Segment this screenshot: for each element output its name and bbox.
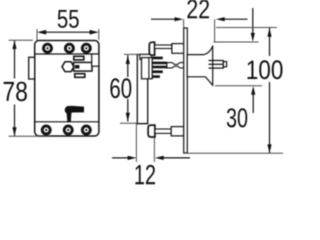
label 55	[58, 10, 79, 28]
dim 78 extension lines	[9, 39, 34, 41]
left mounting tab	[29, 57, 35, 79]
dim 100 line	[269, 28, 271, 56]
bottom bolt shaft	[155, 129, 171, 133]
bottom bolt flange	[148, 125, 155, 137]
label 22	[187, 0, 209, 18]
actuator bottom tab	[75, 74, 85, 78]
top bolt block	[172, 44, 184, 54]
dim 55 extension ticks	[36, 29, 38, 40]
dim 30 bottom arrow	[252, 95, 254, 113]
dim 60 extension lines	[124, 53, 139, 55]
bottom bolt block	[171, 127, 184, 136]
dim 22 extension lines	[183, 19, 185, 28]
dim 60 line	[127, 55, 129, 77]
actuator top tab	[74, 56, 84, 60]
dim 30 top arrow	[252, 8, 254, 33]
terminal T4	[42, 126, 50, 134]
top bolt flange	[149, 42, 154, 55]
screw tip	[223, 62, 226, 67]
terminal T1	[44, 44, 52, 52]
bushing bell	[187, 45, 213, 85]
terminal T5	[64, 126, 72, 134]
screw shaft	[209, 60, 224, 69]
dim 12 extension lines	[135, 124, 137, 163]
panel plate	[184, 28, 188, 153]
terminal T2	[65, 44, 73, 52]
dim 78 line	[14, 40, 16, 78]
dim 100 extension lines	[216, 27, 277, 29]
side body top inner box	[140, 54, 152, 59]
top band line	[35, 53, 99, 55]
bottom joint line	[137, 123, 148, 125]
label 78	[4, 82, 27, 102]
toggle lever (black flag)	[65, 106, 84, 122]
terminal T6	[82, 126, 90, 134]
dim 12 arrows	[112, 157, 128, 159]
bottom band line	[35, 121, 99, 123]
side body	[148, 53, 150, 55]
label 30	[227, 108, 247, 127]
clip box	[142, 58, 153, 79]
label 100	[248, 60, 283, 79]
small right box	[92, 54, 99, 66]
actuator inner square	[75, 65, 80, 69]
actuator lever bar	[74, 62, 92, 71]
body outline	[35, 41, 99, 137]
dim 55 arrow	[41, 31, 95, 33]
actuator hex nut	[62, 62, 74, 72]
dim 30 extension lines	[214, 41, 259, 43]
label 60	[110, 78, 131, 98]
terminal T3	[82, 44, 90, 52]
comb bars	[152, 57, 167, 78]
label 12	[135, 165, 155, 185]
top bolt shaft	[155, 45, 172, 49]
taper link	[167, 63, 184, 68]
dim 22 arrows	[151, 18, 175, 20]
